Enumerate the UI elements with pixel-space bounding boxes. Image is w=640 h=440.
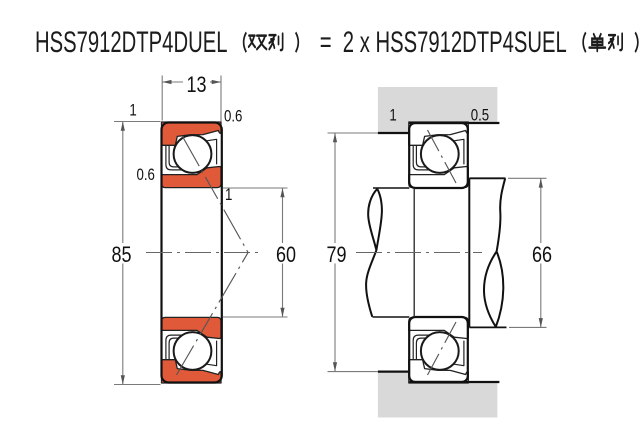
shaft shoulder face [468, 178, 470, 327]
svg-text:0.6: 0.6 [137, 165, 155, 184]
housing shoulder line bottom [378, 371, 409, 373]
shaft seat bottom [373, 316, 410, 318]
dimension 60 arrow top [280, 188, 284, 197]
housing bottom block [378, 372, 498, 418]
dimension 85 extension and dimension lines [114, 122, 161, 385]
svg-text:79: 79 [326, 243, 346, 267]
shaft shoulder bottom surface [469, 326, 506, 328]
shaft step line [413, 188, 415, 317]
centerline right drawing [356, 252, 482, 254]
dimension 66 arrow bottom [539, 318, 543, 327]
dimension 60 extension and dimension lines [223, 188, 288, 317]
dimension 79 arrow top [333, 133, 337, 142]
title text [35, 25, 640, 61]
bearing outline [162, 123, 222, 383]
bearing lower section (mirrored) [162, 317, 222, 383]
dimension 85 arrow bottom [121, 375, 125, 384]
right bearing upper half [409, 122, 469, 383]
svg-text:1: 1 [129, 101, 136, 120]
housing bore line top [409, 122, 499, 124]
svg-text:60: 60 [276, 243, 296, 267]
dimension 85 arrow top [121, 122, 125, 131]
housing shoulder line top [378, 132, 409, 134]
svg-text:66: 66 [532, 243, 552, 267]
dimension 60 arrow bottom [280, 308, 284, 317]
bearing upper section [162, 122, 222, 188]
dimension 13 arrow left [162, 80, 171, 84]
shaft seat top [373, 187, 409, 189]
shaft break line left [366, 189, 382, 317]
svg-text:13: 13 [186, 73, 206, 97]
shaft shoulder top surface [469, 177, 505, 179]
contact line right bottom ball [428, 322, 457, 375]
centerline left drawing [146, 252, 260, 254]
svg-text:1: 1 [225, 185, 232, 204]
contact angle line lower [177, 253, 249, 375]
dimension 66 extension and dimension lines [508, 178, 547, 327]
contact line right top ball [428, 130, 457, 183]
dimension 79 extension and dimension lines [328, 133, 378, 372]
right bearing outlines [409, 123, 468, 188]
dimension 13 extension and dimension lines [162, 76, 221, 122]
svg-text:1: 1 [389, 106, 396, 125]
contact angle line upper [183, 137, 249, 253]
dimension 13 arrow right [212, 80, 221, 84]
dimension 79 arrow bottom [333, 362, 337, 371]
svg-text:0.6: 0.6 [224, 107, 242, 126]
housing bore line bottom [409, 381, 499, 383]
housing top block [378, 87, 498, 132]
shaft break line right [484, 178, 505, 327]
dimension 66 arrow top [539, 178, 543, 187]
svg-text:85: 85 [111, 243, 131, 267]
svg-text:0.5: 0.5 [471, 106, 489, 125]
